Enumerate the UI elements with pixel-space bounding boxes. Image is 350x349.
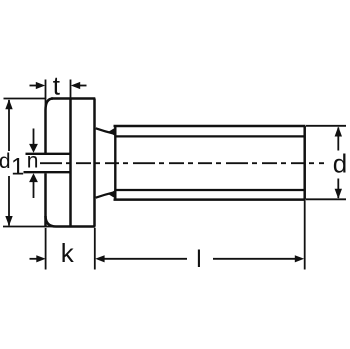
arrowhead l right bbox=[295, 255, 304, 262]
head bottom-left rounded corner bbox=[46, 216, 57, 227]
shaft major diameter bottom bbox=[114, 198, 306, 201]
svg-text:n: n bbox=[27, 149, 39, 172]
k extension / l extension line at head bearing bbox=[94, 228, 96, 270]
d extension line bottom bbox=[306, 198, 346, 200]
head right edge (bearing face) bbox=[93, 99, 96, 227]
svg-text:d: d bbox=[333, 149, 347, 179]
svg-text:k: k bbox=[61, 238, 75, 268]
arrowhead l left bbox=[95, 255, 104, 262]
head bottom outline line bbox=[56, 225, 95, 228]
t extension line left bbox=[45, 80, 47, 110]
k extension line left bbox=[45, 228, 47, 270]
d dimension line bbox=[337, 128, 339, 151]
arrowhead d1 top bbox=[5, 99, 12, 109]
thread run-out curve top bbox=[96, 128, 115, 134]
centerline bbox=[40, 162, 324, 164]
k/l dimension line bbox=[30, 258, 38, 260]
arrowhead t right bbox=[71, 82, 80, 89]
thread run-out curve bottom bbox=[96, 192, 115, 198]
slot bottom edge bbox=[24, 171, 72, 173]
head top-left rounded corner bbox=[46, 99, 54, 111]
d1 extension line bottom bbox=[3, 226, 56, 228]
t extension line right bbox=[70, 80, 72, 99]
thread run-out wedge top bbox=[109, 127, 116, 136]
n arrow tails bbox=[33, 129, 35, 147]
arrowhead d1 bottom bbox=[5, 216, 12, 226]
slot top edge bbox=[26, 153, 72, 155]
arrowhead n bottom bbox=[29, 173, 38, 182]
shaft end face bbox=[303, 126, 306, 200]
svg-text:t: t bbox=[53, 71, 61, 101]
arrowhead t left bbox=[36, 82, 45, 89]
thread minor diameter bottom bbox=[115, 189, 305, 191]
arrowhead n top bbox=[29, 144, 38, 153]
arrowhead k left bbox=[36, 255, 45, 262]
t dimension arrows tails bbox=[30, 85, 37, 87]
l extension line at shaft end bbox=[304, 200, 306, 270]
thread run-out wedge bottom bbox=[109, 190, 116, 199]
head top outline line bbox=[51, 97, 95, 100]
head left face (interrupted by slot) bbox=[44, 110, 47, 153]
svg-text:d: d bbox=[0, 150, 10, 173]
slot bottom line across head bbox=[69, 99, 72, 227]
arrowhead d bottom bbox=[335, 189, 342, 199]
arrowhead d top bbox=[335, 127, 342, 137]
thread minor diameter top bbox=[115, 135, 305, 137]
d1 extension line top bbox=[4, 98, 46, 100]
svg-text:l: l bbox=[196, 246, 201, 273]
svg-text:1: 1 bbox=[11, 154, 24, 181]
shaft major diameter top bbox=[114, 125, 306, 128]
thread start vertical line bbox=[114, 126, 116, 200]
d1 dimension line bbox=[8, 100, 10, 151]
d extension line top bbox=[306, 125, 346, 127]
